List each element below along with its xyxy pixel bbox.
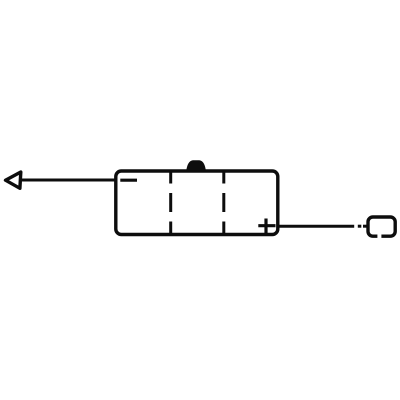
- connector P2 (rounded socket, right): [368, 217, 395, 236]
- battery BAT1 (case): [116, 171, 278, 235]
- connector P1 (open arrow lug, left): [6, 172, 21, 188]
- positive terminal marking +: [258, 219, 275, 235]
- wire (positive lead from battery to right connector): [278, 225, 368, 228]
- battery cell divider (dashed, right): [222, 171, 225, 235]
- battery filler cap (dome on top): [186, 160, 206, 171]
- negative terminal marking -: [120, 179, 137, 182]
- battery cell divider (dashed, left): [169, 171, 172, 235]
- wire (negative lead from battery to arrow connector): [22, 179, 116, 182]
